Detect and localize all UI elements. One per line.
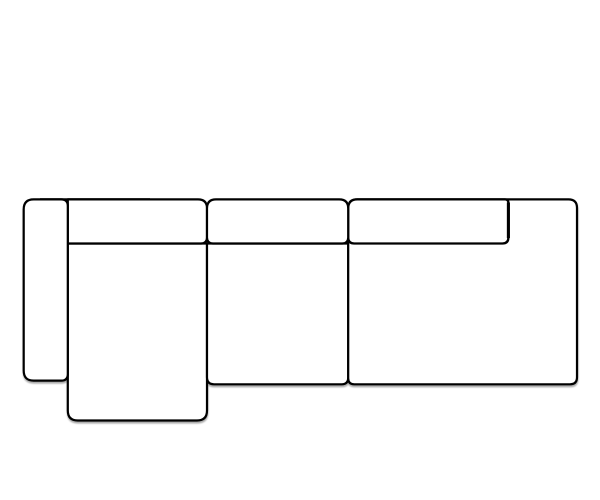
middle back cushion xyxy=(207,199,348,243)
right module back cushion xyxy=(348,199,508,243)
chaise back cushion xyxy=(68,199,207,243)
right open-end module outline xyxy=(348,199,577,384)
left armrest xyxy=(24,199,68,380)
chaise module seat xyxy=(68,244,207,421)
middle module seat xyxy=(207,244,348,385)
right cushion thicker right edge xyxy=(507,203,510,239)
top edge continuity over armrest/cushion junction xyxy=(40,198,150,200)
